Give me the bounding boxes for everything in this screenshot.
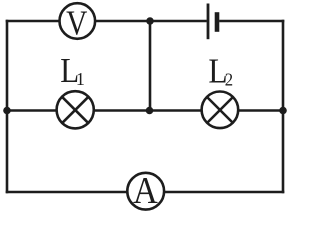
svg-text:A: A <box>133 170 158 212</box>
svg-text:1: 1 <box>76 69 85 89</box>
svg-text:2: 2 <box>225 70 233 90</box>
svg-text:V: V <box>66 3 87 42</box>
